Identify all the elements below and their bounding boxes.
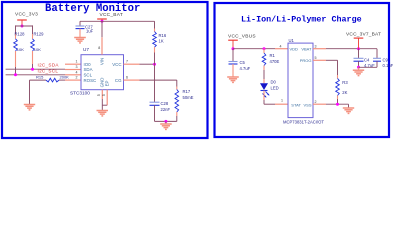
- svg-text:R16: R16: [159, 33, 167, 38]
- svg-text:10K: 10K: [34, 47, 41, 52]
- svg-text:4: 4: [280, 45, 282, 49]
- svg-text:CG: CG: [115, 78, 122, 83]
- svg-text:C4: C4: [364, 57, 370, 62]
- svg-text:5: 5: [102, 94, 106, 96]
- svg-text:5: 5: [315, 56, 317, 60]
- svg-text:VCC_3V3: VCC_3V3: [15, 12, 38, 18]
- svg-text:1uF: 1uF: [86, 29, 94, 34]
- svg-text:D0: D0: [271, 80, 277, 85]
- svg-text:2: 2: [76, 76, 78, 80]
- svg-text:R17: R17: [183, 89, 191, 94]
- svg-text:VDD: VDD: [290, 46, 299, 51]
- svg-text:50mE: 50mE: [183, 95, 194, 100]
- svg-text:VSS: VSS: [303, 102, 311, 107]
- svg-text:0.1uF: 0.1uF: [383, 63, 394, 68]
- svg-text:U1: U1: [289, 38, 295, 43]
- svg-text:8: 8: [98, 46, 100, 50]
- svg-text:Li-Ion/Li-Polymer Charge: Li-Ion/Li-Polymer Charge: [241, 15, 362, 25]
- svg-text:VBAT: VBAT: [301, 46, 312, 51]
- svg-text:R3: R3: [342, 80, 348, 85]
- svg-text:1: 1: [76, 60, 78, 64]
- svg-text:VCC_VBUS: VCC_VBUS: [228, 33, 256, 39]
- svg-text:PROG: PROG: [300, 58, 312, 63]
- svg-text:VCC_3V7_BAT: VCC_3V7_BAT: [346, 31, 381, 37]
- svg-text:I2C_SDA: I2C_SDA: [38, 62, 60, 67]
- svg-text:5: 5: [97, 94, 101, 96]
- svg-text:22nF: 22nF: [161, 107, 171, 112]
- svg-text:2: 2: [315, 100, 317, 104]
- svg-text:470E: 470E: [270, 59, 280, 64]
- svg-text:LED: LED: [271, 86, 279, 91]
- svg-text:6: 6: [126, 76, 128, 80]
- svg-text:EP: EP: [104, 81, 109, 87]
- svg-text:4: 4: [76, 70, 78, 74]
- svg-text:C28: C28: [161, 101, 169, 106]
- svg-text:C9: C9: [383, 57, 389, 62]
- svg-text:VCC: VCC: [112, 62, 121, 67]
- svg-text:1K: 1K: [159, 38, 164, 43]
- svg-text:10K: 10K: [17, 47, 24, 52]
- svg-text:STC3100: STC3100: [70, 91, 90, 96]
- svg-text:I2C_SCL: I2C_SCL: [38, 69, 59, 74]
- svg-text:STAT: STAT: [291, 102, 301, 107]
- svg-text:U7: U7: [83, 47, 89, 52]
- svg-text:C5: C5: [240, 60, 246, 65]
- svg-text:SCL: SCL: [84, 73, 93, 78]
- svg-text:SDA: SDA: [84, 67, 93, 72]
- svg-text:4.7uF: 4.7uF: [240, 66, 251, 71]
- svg-text:VCC_BAT: VCC_BAT: [100, 12, 124, 18]
- svg-text:3: 3: [315, 45, 317, 49]
- svg-text:R15: R15: [36, 74, 44, 79]
- svg-text:Battery Monitor: Battery Monitor: [45, 3, 140, 15]
- svg-text:R129: R129: [34, 31, 45, 36]
- svg-text:7: 7: [126, 60, 128, 64]
- svg-text:VIN: VIN: [99, 58, 104, 65]
- svg-text:2K: 2K: [342, 90, 347, 95]
- svg-text:R128: R128: [15, 31, 26, 36]
- svg-text:R1: R1: [270, 53, 276, 58]
- svg-text:MCP73831T-2ACI/OT: MCP73831T-2ACI/OT: [283, 120, 324, 125]
- svg-text:3: 3: [76, 65, 78, 69]
- svg-text:1: 1: [281, 99, 283, 103]
- svg-text:IO0: IO0: [84, 62, 92, 67]
- svg-text:ROSC: ROSC: [84, 78, 97, 83]
